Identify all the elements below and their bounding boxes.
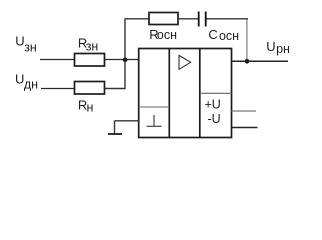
resistor Rн <box>75 82 105 95</box>
op-amp divider right <box>199 49 201 138</box>
wire Rзн to node <box>105 59 139 61</box>
ground wire to op-amp <box>115 120 139 122</box>
op-amp divider left <box>168 49 170 138</box>
svg-text:Uрн: Uрн <box>266 39 290 56</box>
ground bar <box>108 133 122 135</box>
node B (output junction) <box>245 59 250 64</box>
svg-text:Cосн: Cосн <box>208 27 239 43</box>
svg-text:Rосн: Rосн <box>149 27 177 42</box>
wire Rосн to Cосн <box>178 18 198 20</box>
wire Cосн to right corner <box>207 18 249 20</box>
svg-text:+U: +U <box>205 97 221 111</box>
resistor Rзн <box>75 54 105 67</box>
wire vertical at node A <box>124 19 126 89</box>
op-amp common pin symbol ⊥ <box>153 115 155 126</box>
svg-text:-U: -U <box>208 112 221 126</box>
wire feedback top left <box>125 18 150 20</box>
node A (inverting input junction) <box>123 58 128 63</box>
op-amp right sub-cell line <box>200 92 232 94</box>
wire feedback right vertical <box>246 19 248 60</box>
wire from Uдн to Rн <box>41 88 74 90</box>
ground riser <box>114 121 116 134</box>
-U pin wire <box>232 127 258 129</box>
wire Rн to vertical <box>105 88 126 90</box>
wire output <box>232 60 289 62</box>
op-amp left sub-cell line <box>139 106 170 108</box>
capacitor Cосн plate 1 <box>198 12 200 27</box>
svg-text:Rн: Rн <box>78 97 94 114</box>
op-amp triangle symbol <box>179 55 191 69</box>
wire from Uзн to Rзн <box>40 59 74 61</box>
op-amp U1 body <box>139 49 232 138</box>
+U pin wire <box>232 110 257 112</box>
capacitor Cосн plate 2 <box>205 12 207 27</box>
resistor Rосн <box>149 13 178 25</box>
